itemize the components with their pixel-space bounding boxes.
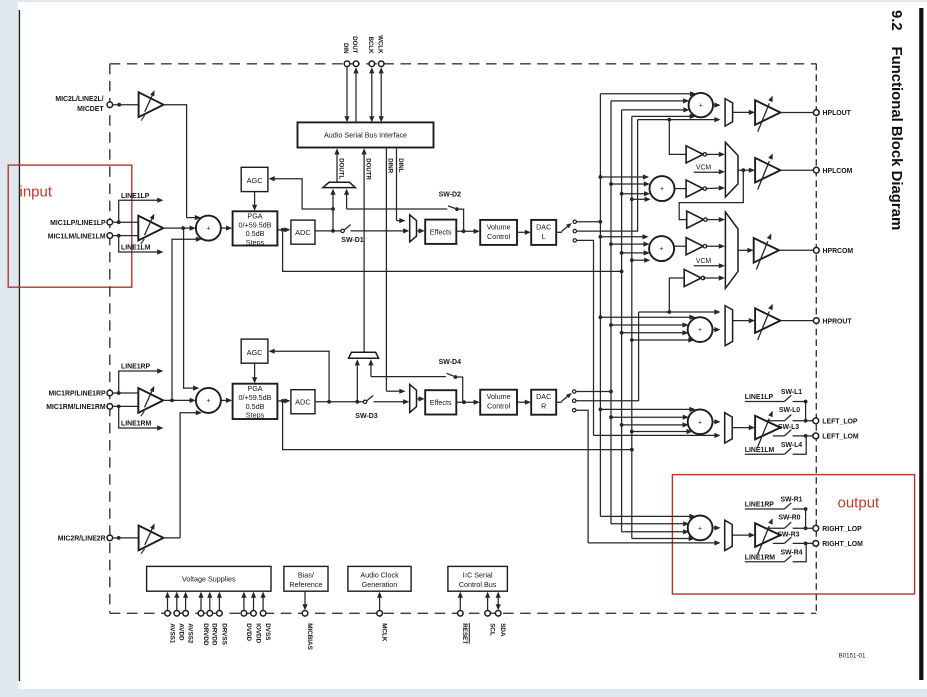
pin AVSS2 xyxy=(183,611,189,617)
svg-text:Generation: Generation xyxy=(362,580,398,589)
wire HPLOUT driver to pin xyxy=(780,112,813,114)
wire DAC-R direct to HPROUT mux xyxy=(639,311,717,313)
wire VC-R to DAC-R xyxy=(517,401,527,403)
switch SW-R0 xyxy=(766,527,785,529)
wire HPROUT mixer input 4 xyxy=(632,339,690,341)
svg-text:Steps: Steps xyxy=(246,238,265,247)
svg-text:Bias/: Bias/ xyxy=(298,570,314,579)
wire SW-D3 to record mux R xyxy=(374,401,406,403)
switch SW-D3 xyxy=(363,400,366,403)
switch SW-L3 xyxy=(773,435,785,437)
wire MCLK xyxy=(379,596,381,611)
pin SDA xyxy=(495,611,501,617)
pin MICBIAS xyxy=(302,611,308,617)
wire AGC-R to PGA-R xyxy=(254,363,256,379)
wire HPRCOM mid inv to mux xyxy=(706,245,721,247)
svg-text:Reference: Reference xyxy=(289,580,322,589)
wire HPRCOM mux to driver xyxy=(738,249,749,251)
wire DOUTR xyxy=(363,152,365,352)
svg-text:+: + xyxy=(206,226,210,233)
svg-text:DOUT: DOUT xyxy=(351,36,358,54)
wire mixer-R lower input xyxy=(180,413,197,538)
mixer left record xyxy=(196,216,221,241)
wire SW-L1 to LOP xyxy=(805,402,807,421)
wire effects-L output xyxy=(456,230,476,232)
mux HPRCOM xyxy=(725,212,738,288)
wire HPLCOM mixer to inv amp xyxy=(675,188,686,190)
pin DRVSS xyxy=(217,611,223,617)
svg-text:Audio Serial Bus Interface: Audio Serial Bus Interface xyxy=(324,131,407,140)
svg-text:LINE1LP: LINE1LP xyxy=(121,193,150,200)
pin DVSS xyxy=(260,611,266,617)
wire mixer-L to PGA-L xyxy=(221,227,228,229)
wire RIGHT mixer input 1 xyxy=(600,515,691,517)
svg-text:BCLK: BCLK xyxy=(367,37,374,55)
pin DIN xyxy=(344,61,350,67)
pin HPROUT xyxy=(813,318,819,324)
switch DAC-L output select xyxy=(556,231,562,233)
wire AGC-R feed xyxy=(273,351,330,402)
chip dashed border xyxy=(110,63,817,65)
wire DINR xyxy=(385,148,387,392)
svg-text:input: input xyxy=(20,184,53,201)
svg-text:HPRCOM: HPRCOM xyxy=(823,248,854,255)
bias reference box xyxy=(284,566,328,591)
switch SW-D1 xyxy=(341,229,344,232)
voltage supplies box xyxy=(147,566,271,591)
svg-text:AVDD: AVDD xyxy=(178,623,185,641)
wire DAC-R direct to RIGHT mux xyxy=(588,542,716,544)
wire HPRCOM mixer input 2 xyxy=(611,243,645,245)
pin HPLOUT xyxy=(813,110,819,116)
switch SW-D4 xyxy=(371,376,446,378)
pin MCLK xyxy=(377,611,383,617)
svg-text:DIN: DIN xyxy=(342,43,349,54)
svg-text:+: + xyxy=(698,525,702,532)
wire DINL xyxy=(396,148,398,221)
svg-text:L: L xyxy=(542,232,546,241)
svg-text:LINE1LP: LINE1LP xyxy=(745,394,774,401)
svg-text:HPROUT: HPROUT xyxy=(823,318,853,325)
wire MIC1L amp crossfeed xyxy=(183,228,195,388)
amplifier MIC1L input xyxy=(138,216,163,241)
wire HPLOUT mixer input 4 xyxy=(632,115,692,117)
svg-text:+: + xyxy=(698,419,702,426)
wire DAC-L top contact to bus1 xyxy=(577,221,601,223)
wire LINE1LM stub xyxy=(119,236,159,252)
wire RESET xyxy=(459,596,461,611)
pin RIGHT_LOP xyxy=(813,525,819,531)
wire WCLK xyxy=(380,71,382,119)
audio serial bus interface box U1 xyxy=(298,122,434,147)
svg-text:DINL: DINL xyxy=(397,158,404,172)
svg-text:LEFT_LOM: LEFT_LOM xyxy=(822,434,859,441)
wire LEFT mixer input 1 xyxy=(600,408,691,410)
record path mux right xyxy=(410,384,417,412)
svg-text:VCM: VCM xyxy=(696,164,712,171)
wire DAC-L direct to LEFT mux xyxy=(594,434,717,436)
svg-text:+: + xyxy=(660,246,664,253)
wire LEFT mixer input 4 xyxy=(632,431,688,433)
svg-text:LINE1RP: LINE1RP xyxy=(745,502,775,509)
left page rule xyxy=(18,10,20,681)
wire bus PGA-L (line3) xyxy=(621,110,623,532)
svg-text:SCL: SCL xyxy=(489,623,496,636)
svg-text:MICDET: MICDET xyxy=(77,106,104,113)
svg-text:SW-R3: SW-R3 xyxy=(777,531,799,538)
svg-text:RIGHT_LOP: RIGHT_LOP xyxy=(822,526,862,533)
wire DAC-R mid contact direct xyxy=(576,312,639,401)
svg-text:MIC1LM/LINE1LM: MIC1LM/LINE1LM xyxy=(48,233,106,240)
wire HPLCOM mid inv to mux xyxy=(706,187,721,190)
wire HPRCOM mixer to inv amp xyxy=(674,245,686,247)
amplifier HPROUT driver xyxy=(755,308,780,333)
wire MIC1L amp to mixer xyxy=(163,227,191,229)
effects box left xyxy=(425,220,456,244)
svg-text:MIC1LP/LINE1LP: MIC1LP/LINE1LP xyxy=(50,220,106,227)
svg-text:0/+59.5dB: 0/+59.5dB xyxy=(239,220,272,229)
mux HPROUT xyxy=(725,306,733,346)
svg-text:HPLCOM: HPLCOM xyxy=(823,168,853,175)
wire MIC1RP to amp xyxy=(113,392,139,394)
svg-text:SW-R4: SW-R4 xyxy=(780,550,802,557)
wire PGA-L to ADC-L xyxy=(277,229,286,231)
switch SW-L4 xyxy=(745,453,785,455)
wire RIGHT mux to driver xyxy=(732,534,750,536)
ADC box left xyxy=(291,220,315,244)
wire MIC1LP to amp xyxy=(113,221,139,223)
svg-text:AVSS1: AVSS1 xyxy=(168,623,175,644)
svg-text:Audio Clock: Audio Clock xyxy=(360,570,399,579)
amplifier HPLCOM driver xyxy=(755,158,780,183)
svg-text:WCLK: WCLK xyxy=(376,35,383,54)
svg-text:MIC2L/LINE2L/: MIC2L/LINE2L/ xyxy=(55,96,103,103)
svg-text:Control: Control xyxy=(487,232,511,241)
svg-text:ADC: ADC xyxy=(295,398,311,407)
wire HPROUT mux to driver xyxy=(733,320,751,322)
wire DOUT xyxy=(355,71,357,123)
amplifier MIC2L xyxy=(139,92,164,117)
pin DOUT xyxy=(353,61,359,67)
amplifier HPLOUT driver xyxy=(755,100,780,125)
wire SW-R1 to LOP xyxy=(805,509,807,528)
svg-text:B0151-01: B0151-01 xyxy=(839,653,866,660)
wire AVSS1 xyxy=(167,596,169,611)
svg-text:SDA: SDA xyxy=(499,623,506,637)
svg-text:RIGHT_LOM: RIGHT_LOM xyxy=(822,541,863,548)
switch SW-R4 xyxy=(745,561,785,563)
wire HPLOUT mixer input 3 xyxy=(622,109,685,111)
svg-text:DAC: DAC xyxy=(536,222,551,231)
pin LEFT_LOM xyxy=(813,433,819,439)
wire IOVDD xyxy=(253,596,255,611)
svg-text:MICBIAS: MICBIAS xyxy=(306,623,313,650)
svg-text:AGC: AGC xyxy=(247,176,264,185)
wire DAC-L bottom contact xyxy=(577,240,594,435)
svg-text:SW-D1: SW-D1 xyxy=(341,237,364,244)
wire HPROUT mixer to mux xyxy=(713,329,717,331)
svg-text:I2C Serial: I2C Serial xyxy=(463,570,494,579)
svg-text:Control Bus: Control Bus xyxy=(459,580,497,589)
svg-text:R: R xyxy=(541,402,546,411)
wire AVDD xyxy=(176,596,178,611)
pin RESET xyxy=(458,611,464,617)
amplifier LEFT line driver xyxy=(755,416,780,440)
wire SCL xyxy=(487,596,489,611)
wire DIN xyxy=(346,67,348,119)
wire LINE1RP stub xyxy=(119,371,159,393)
switch SW-D2 xyxy=(347,208,448,210)
wire PGA-R bypass tap xyxy=(283,401,632,450)
wire HPLCOM mixer input 2 xyxy=(611,183,645,185)
wire mixer-L lower input xyxy=(172,239,198,400)
wire PGA-L bypass tap xyxy=(283,230,622,272)
svg-text:output: output xyxy=(838,495,881,512)
svg-text:DVDD: DVDD xyxy=(245,623,252,641)
wire effects-R output xyxy=(456,401,476,403)
mux RIGHT line out xyxy=(725,520,733,550)
svg-text:SW-L4: SW-L4 xyxy=(781,442,802,449)
wire SW-D1 to record mux xyxy=(351,230,406,232)
svg-text:0.5dB: 0.5dB xyxy=(246,402,265,411)
svg-text:ADC: ADC xyxy=(295,228,311,237)
wire HPRCOM top inv to mux xyxy=(706,219,721,221)
svg-text:MCLK: MCLK xyxy=(381,623,388,642)
inverting amp HPRCOM bottom xyxy=(684,269,701,286)
svg-text:Voltage Supplies: Voltage Supplies xyxy=(182,574,236,583)
inverting amp HPLCOM top xyxy=(686,146,703,163)
svg-text:+: + xyxy=(660,186,664,193)
wire HPLCOM mux to driver xyxy=(738,169,751,171)
wire ADC-R output xyxy=(315,401,364,403)
svg-text:LINE1LM: LINE1LM xyxy=(121,245,151,252)
wire bus PGA-R (line4) xyxy=(631,116,633,538)
svg-text:HPLOUT: HPLOUT xyxy=(823,110,852,117)
mixer LEFT line out xyxy=(688,409,713,434)
wire DVSS xyxy=(262,596,264,611)
wire SW-D4 to effects-R output xyxy=(455,377,462,402)
svg-text:AGC: AGC xyxy=(247,348,264,357)
ADC output mux funnel left xyxy=(323,182,355,187)
wire LEFT mixer input 2 xyxy=(611,416,684,418)
wire HPLCOM to HPRCOM inv feed xyxy=(679,170,743,219)
wire MIC2R to amp xyxy=(113,537,139,539)
effects box right xyxy=(425,390,456,414)
pin DRVDD xyxy=(198,611,204,617)
svg-text:9.2: 9.2 xyxy=(888,10,904,31)
svg-text:MIC2R/LINE2R: MIC2R/LINE2R xyxy=(58,536,106,543)
wire DAC-R bottom contact xyxy=(576,410,588,543)
wire AGC-L feed xyxy=(273,179,334,209)
PGA box left xyxy=(233,211,278,245)
svg-text:SW-L0: SW-L0 xyxy=(779,407,800,414)
pin MIC2L/LINE2L/MICDET xyxy=(107,102,113,108)
svg-text:LINE1LM: LINE1LM xyxy=(745,447,775,454)
wire HPROUT driver to pin xyxy=(780,320,813,322)
wire mixer-L upper input xyxy=(187,217,197,219)
wire mux-R to effects-R xyxy=(417,398,421,400)
svg-text:DRVSS: DRVSS xyxy=(220,623,227,645)
svg-text:Effects: Effects xyxy=(430,398,452,407)
svg-text:MIC1RM/LINE1RM: MIC1RM/LINE1RM xyxy=(46,404,106,411)
wire DAC-L mid contact direct xyxy=(577,120,638,232)
svg-text:SW-D3: SW-D3 xyxy=(355,413,378,420)
svg-text:PGA: PGA xyxy=(247,384,262,393)
wire MIC1RM to amp xyxy=(113,405,139,407)
svg-text:SW-L1: SW-L1 xyxy=(781,389,802,396)
inverting amp HPRCOM mid xyxy=(686,238,703,255)
wire HPRCOM bottom inv feed xyxy=(669,278,684,312)
svg-text:DOUTL: DOUTL xyxy=(338,158,345,179)
wire MIC1LM to amp xyxy=(113,235,139,237)
mixer HPLCOM xyxy=(650,176,675,201)
mixer HPROUT xyxy=(688,317,713,342)
wire HPRCOM driver to pin xyxy=(779,249,813,251)
wire RIGHT mixer input 2 xyxy=(611,523,685,525)
svg-text:+: + xyxy=(699,103,703,110)
wire RIGHT mixer to mux xyxy=(713,527,717,529)
red input annotation box xyxy=(8,165,132,287)
mux LEFT line out xyxy=(725,413,733,443)
wire HPLCOM driver to pin xyxy=(780,169,813,171)
pin IOVDD xyxy=(251,611,257,617)
mixer HPRCOM xyxy=(649,236,674,261)
switch SW-R3 xyxy=(773,542,785,544)
wire AVSS2 xyxy=(185,596,187,611)
pin MIC1RP/LINE1RP xyxy=(107,390,113,396)
wire MIC2R amp output xyxy=(164,537,181,539)
amplifier MIC1R input xyxy=(138,388,163,413)
inverting amp HPRCOM top xyxy=(687,211,704,228)
svg-text:MIC1RP/LINE1RP: MIC1RP/LINE1RP xyxy=(49,391,106,398)
inverting amp HPLCOM mid xyxy=(686,180,703,197)
wire mux-L to effects-L xyxy=(417,230,421,232)
pin WCLK xyxy=(378,61,384,67)
svg-text:Volume: Volume xyxy=(487,392,511,401)
svg-text:SW-D2: SW-D2 xyxy=(439,192,462,199)
mixer HPLOUT xyxy=(689,93,713,117)
pin MIC1LM/LINE1LM xyxy=(107,233,113,239)
wire HPLOUT mixer input 2 xyxy=(611,100,685,102)
svg-text:IOVDD: IOVDD xyxy=(254,623,261,643)
switch DAC-R output select xyxy=(556,401,562,403)
wire PGA-R to ADC-R xyxy=(277,400,286,402)
mixer right record xyxy=(196,388,221,413)
svg-text:SW-D4: SW-D4 xyxy=(439,359,462,366)
svg-text:SW-R1: SW-R1 xyxy=(780,497,802,504)
wire DAC-L direct to HPLOUT mux xyxy=(638,119,717,121)
svg-text:LINE1RP: LINE1RP xyxy=(121,364,151,371)
svg-text:0/+59.5dB: 0/+59.5dB xyxy=(239,393,272,402)
svg-text:Effects: Effects xyxy=(430,227,452,236)
pin LEFT_LOP xyxy=(813,418,819,424)
pin AVSS1 xyxy=(165,611,171,617)
wire LINE1LP stub xyxy=(119,200,159,222)
i2c serial control bus box xyxy=(448,566,508,591)
wire DINR to record mux R xyxy=(386,390,401,392)
svg-text:VCM: VCM xyxy=(696,258,712,265)
wire HPROUT mixer input 3 xyxy=(622,332,684,334)
wire HPROUT mixer input 1 xyxy=(600,316,691,318)
wire MIC2L amp output xyxy=(164,105,187,218)
PGA box right xyxy=(233,384,278,419)
wire HPRCOM mixer input 1 xyxy=(600,236,644,238)
mux HPLOUT xyxy=(725,99,733,127)
AGC box right xyxy=(241,339,268,363)
amplifier MIC2R xyxy=(139,526,164,551)
wire ADC-L output xyxy=(315,230,342,232)
wire DOUTL xyxy=(336,152,338,182)
svg-text:PGA: PGA xyxy=(247,212,262,221)
wire DRVDD xyxy=(200,596,202,611)
wire BCLK xyxy=(371,71,373,119)
AGC box left xyxy=(241,167,268,191)
audio clock generation box xyxy=(348,566,411,591)
DAC L box xyxy=(531,220,556,245)
svg-text:DINR: DINR xyxy=(387,158,394,173)
wire bus DAC-R (line2) xyxy=(610,101,612,524)
wire mixer-R mid input arrowhead xyxy=(190,398,196,403)
wire mixer-R to PGA-R xyxy=(221,399,228,401)
wire DVDD xyxy=(243,596,245,611)
pin SCL xyxy=(485,611,491,617)
svg-text:Volume: Volume xyxy=(487,222,511,231)
amplifier HPRCOM driver xyxy=(754,238,779,263)
svg-text:+: + xyxy=(698,327,702,334)
ADC output mux funnel right xyxy=(349,352,379,358)
wire HPLOUT mixer to mux xyxy=(713,104,716,106)
svg-text:Functional Block Diagram: Functional Block Diagram xyxy=(888,47,904,231)
wire DRVDD xyxy=(209,596,211,611)
wire VCM lower xyxy=(694,265,721,267)
wire bus DAC-L (line1) xyxy=(599,94,601,517)
wire MIC2L to amp xyxy=(113,104,139,106)
wire LEFT mixer input 3 xyxy=(622,424,684,426)
svg-text:LINE1RM: LINE1RM xyxy=(121,421,152,428)
wire SW-D2 to effects-L output xyxy=(457,209,464,231)
wire VC-L to DAC-L xyxy=(517,231,527,233)
svg-text:SW-L3: SW-L3 xyxy=(778,424,799,431)
wire HPLOUT mux to driver xyxy=(733,111,751,113)
svg-text:DRVDD: DRVDD xyxy=(211,623,218,646)
ADC box right xyxy=(291,390,315,414)
svg-text:RESET: RESET xyxy=(461,623,468,644)
pin DVDD xyxy=(241,611,247,617)
svg-text:0.5dB: 0.5dB xyxy=(246,229,265,238)
wire DINL to record mux xyxy=(397,220,402,222)
svg-text:DVSS: DVSS xyxy=(264,623,271,640)
svg-text:Steps: Steps xyxy=(246,411,265,420)
wire HPLCOM mixer input 3 xyxy=(622,193,646,195)
pin DRVDD xyxy=(207,611,213,617)
svg-text:DRVDD: DRVDD xyxy=(202,623,209,646)
wire LINE1RM stub xyxy=(119,406,159,428)
mixer RIGHT line out xyxy=(688,516,713,541)
wire HPRCOM mixer input 4 xyxy=(632,259,646,261)
svg-text:+: + xyxy=(206,398,210,405)
wire RIGHT mixer input 3 xyxy=(622,531,685,533)
wire AGC-L to PGA-L xyxy=(254,192,256,207)
wire HPRCOM bottom inv to mux xyxy=(703,277,721,279)
pin MIC1LP/LINE1LP xyxy=(107,219,113,225)
wire HPLCOM inv amp feed xyxy=(669,120,685,155)
pin MIC2R/LINE2R xyxy=(107,535,113,541)
volume control box right xyxy=(480,390,517,415)
wire HPLCOM mixer input 4 xyxy=(632,198,646,200)
pin RIGHT_LOM xyxy=(813,541,819,547)
svg-text:DOUTR: DOUTR xyxy=(365,158,372,180)
wire DAC-R top contact to bus3 xyxy=(576,391,611,393)
